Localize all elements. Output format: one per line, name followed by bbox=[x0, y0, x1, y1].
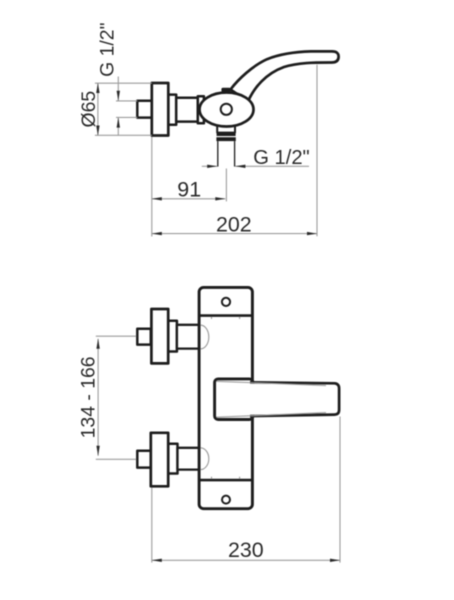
svg-text:202: 202 bbox=[216, 213, 252, 237]
svg-text:134 - 166: 134 - 166 bbox=[77, 356, 99, 438]
svg-text:G 1/2": G 1/2" bbox=[253, 147, 310, 169]
svg-text:91: 91 bbox=[177, 177, 201, 201]
svg-text:Ø65: Ø65 bbox=[78, 91, 100, 128]
svg-text:G 1/2": G 1/2" bbox=[97, 22, 119, 76]
svg-text:230: 230 bbox=[228, 538, 264, 562]
